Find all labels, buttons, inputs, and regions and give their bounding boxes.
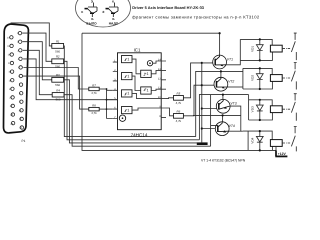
svg-text:1: 1 bbox=[127, 108, 129, 112]
svg-text:Б: Б bbox=[91, 17, 94, 21]
wire R7 out to IC bus bbox=[99, 88, 106, 90]
svg-text:560: 560 bbox=[55, 83, 60, 87]
IC ground pin circle bbox=[119, 115, 125, 121]
svg-text:1: 1 bbox=[146, 89, 148, 93]
channel 1 rails and box bbox=[240, 39, 272, 60]
collector rail ch2 + riser bbox=[196, 71, 243, 136]
wire R5 to VT1 base bbox=[183, 63, 201, 98]
collector rail ch4 bbox=[193, 115, 241, 122]
svg-text:фрагмент схемы заменили транзи: фрагмент схемы заменили транзисторы на n… bbox=[132, 14, 260, 19]
collector rail ch1 bbox=[82, 33, 220, 55]
IC1 74HC14 body bbox=[118, 53, 162, 130]
wire R6 to VT2 base bbox=[183, 85, 201, 116]
wire collector rail ch1 left drop to bottom rail 4 bbox=[82, 33, 276, 150]
resistor R5 bbox=[174, 96, 184, 101]
resistor R6 bbox=[174, 114, 184, 119]
svg-text:НАДО: НАДО bbox=[109, 22, 119, 26]
wire W3 pin2 to R3 bbox=[22, 42, 51, 80]
svg-text:Э: Э bbox=[102, 10, 105, 14]
wire R4 out down to bottom rail 5 bbox=[64, 95, 211, 147]
svg-text:1: 1 bbox=[127, 57, 129, 61]
transistor VT3 bbox=[216, 99, 230, 113]
wire IC pin8 to R6 bbox=[166, 108, 174, 116]
wire W1 pin14 to R1 bbox=[11, 23, 52, 46]
transistor VT2 bbox=[214, 77, 228, 91]
relay K4 bbox=[270, 140, 282, 147]
svg-text:VT 1-4 КТ3102 (ВС547) NPN: VT 1-4 КТ3102 (ВС547) NPN bbox=[201, 159, 246, 163]
diode VD4 bbox=[256, 131, 263, 150]
collector rail ch3 + riser bbox=[199, 95, 248, 140]
connector pins left column 14-25 bbox=[10, 36, 15, 125]
svg-text:560: 560 bbox=[56, 98, 61, 102]
svg-text:4,7k: 4,7k bbox=[176, 119, 182, 123]
svg-text:R8: R8 bbox=[92, 103, 96, 107]
IC right pin stubs 14-8 bbox=[161, 61, 166, 117]
base stubs bbox=[202, 63, 217, 129]
transistor VT4 bbox=[215, 122, 229, 136]
svg-text:VD1: VD1 bbox=[251, 46, 255, 52]
ellipse detail bubble bbox=[76, 0, 131, 27]
wire W4 pin3 to R4 bbox=[23, 50, 52, 94]
resistor R2 bbox=[52, 59, 64, 64]
transistor pinout NADO (new) bbox=[106, 3, 119, 18]
connector XP1 DB25 bbox=[3, 24, 28, 133]
svg-text:Driver 5 Axis Interface Board: Driver 5 Axis Interface Board HY-ZK-03 bbox=[132, 5, 204, 10]
svg-text:4,7k: 4,7k bbox=[91, 91, 97, 95]
svg-text:1: 1 bbox=[146, 72, 148, 76]
IC input bus bbox=[106, 89, 108, 119]
resistor R3 bbox=[52, 77, 64, 82]
contact ch2 bbox=[291, 63, 296, 90]
svg-text:К: К bbox=[112, 0, 114, 4]
svg-text:Б: Б bbox=[112, 17, 115, 21]
svg-text:4,7k: 4,7k bbox=[176, 101, 182, 105]
wire R2 out down to bottom rail 2 bbox=[64, 61, 200, 140]
inverter gate D bbox=[122, 107, 133, 114]
wire R3 out down to bottom rail 3 bbox=[64, 80, 202, 143]
svg-text:R2: R2 bbox=[56, 55, 60, 59]
+12V supply terminal bbox=[275, 146, 277, 150]
wire R1 out down to bottom rail 1 bbox=[64, 46, 196, 137]
channel 4 rails and box bbox=[243, 131, 273, 150]
ground symbol bbox=[197, 142, 208, 145]
svg-text:VT3: VT3 bbox=[230, 102, 236, 106]
base bus with ground bbox=[201, 63, 203, 142]
IC power pin circle bbox=[147, 61, 152, 66]
inverter gate B bbox=[122, 73, 133, 80]
svg-text:VD2: VD2 bbox=[251, 75, 255, 81]
wire IC pin9 to R5 bbox=[166, 97, 174, 100]
svg-text:VT4: VT4 bbox=[229, 124, 235, 128]
svg-text:К: К bbox=[81, 10, 83, 14]
svg-text:VT2: VT2 bbox=[228, 80, 234, 84]
resistor R4 bbox=[52, 93, 64, 97]
IC left pin stubs 1-7 bbox=[113, 62, 118, 118]
svg-text:R4: R4 bbox=[56, 89, 60, 93]
transistor pinout BYLO (old) bbox=[85, 3, 98, 18]
contact ch3 bbox=[291, 94, 296, 121]
svg-text:1: 1 bbox=[127, 74, 129, 78]
svg-text:VD3: VD3 bbox=[251, 106, 255, 112]
wire W5 pin4 to R7 bbox=[23, 59, 117, 100]
svg-text:560: 560 bbox=[55, 65, 60, 69]
wire W7 pin6 to R8 bbox=[22, 76, 88, 109]
svg-text:БЫЛО: БЫЛО bbox=[86, 22, 97, 26]
inverter gate C bbox=[122, 90, 133, 97]
svg-text:P1: P1 bbox=[22, 139, 26, 143]
svg-text:560: 560 bbox=[55, 49, 60, 53]
svg-text:1: 1 bbox=[127, 92, 129, 96]
dash link ch1 bbox=[283, 48, 291, 50]
diode VD2 bbox=[256, 68, 263, 89]
zigzag rail4 to ch3 rail bbox=[211, 95, 218, 147]
svg-text:+12V: +12V bbox=[278, 152, 287, 156]
wire R8 out to IC pin bbox=[99, 108, 106, 110]
inverter gate F bbox=[141, 87, 152, 94]
dash link ch3 bbox=[283, 108, 291, 110]
inverter gate E bbox=[141, 70, 152, 77]
IC internal wires bbox=[132, 59, 141, 74]
svg-text:74HC14: 74HC14 bbox=[131, 133, 148, 138]
diode VD3 bbox=[256, 100, 263, 120]
dash link ch2 bbox=[283, 77, 291, 79]
diode VD1 bbox=[256, 39, 263, 60]
dash link ch4 bbox=[283, 142, 291, 144]
relay K2 bbox=[270, 75, 282, 82]
VT3 emitter wire to ch4 top rail bbox=[230, 106, 241, 131]
connector pins right column 1-13 bbox=[18, 31, 23, 129]
svg-text:R7: R7 bbox=[92, 84, 96, 88]
svg-text:VT1: VT1 bbox=[227, 57, 233, 61]
wire W6 pin5 to R7 bbox=[23, 68, 88, 90]
svg-text:R6: R6 bbox=[177, 109, 181, 113]
svg-text:4,7k: 4,7k bbox=[91, 111, 97, 115]
resistor R7 bbox=[89, 87, 99, 91]
VT2 emitter wire bbox=[227, 86, 243, 88]
VT1 emitter wire bbox=[226, 60, 240, 64]
transistor VT1 bbox=[213, 55, 227, 69]
inverter gate A bbox=[122, 56, 133, 63]
channel 3 rails and box bbox=[249, 95, 273, 120]
relay K3 bbox=[270, 106, 282, 113]
resistor R8 bbox=[89, 107, 99, 111]
resistor R1 bbox=[52, 44, 64, 49]
channel 2 rails and box bbox=[243, 68, 273, 89]
svg-text:IC1: IC1 bbox=[134, 48, 141, 53]
connector pin numbers bbox=[7, 32, 23, 130]
gate hysteresis marks bbox=[124, 59, 127, 61]
VT4 emitter wire = ch4 top rail bbox=[229, 130, 243, 132]
svg-text:R3: R3 bbox=[56, 73, 60, 77]
wire W2 pin1 to R2 bbox=[22, 33, 52, 61]
contact ch1 bbox=[291, 33, 296, 60]
svg-text:VD4: VD4 bbox=[251, 137, 255, 143]
svg-text:R1: R1 bbox=[56, 39, 60, 43]
svg-text:R5: R5 bbox=[177, 91, 181, 95]
relay K1 bbox=[270, 45, 282, 52]
contact ch4 bbox=[291, 127, 296, 152]
